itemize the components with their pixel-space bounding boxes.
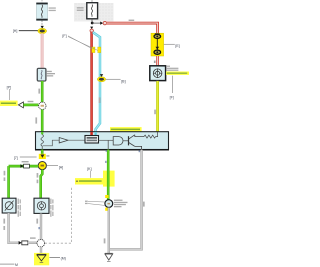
svg-text:[7]: [7] [14,156,18,160]
IC block inside ECU [85,136,99,144]
fuse F2 value text [47,71,55,77]
wire cyan stub inside ECU [94,132,96,136]
leader line from [P] [9,89,11,100]
wire green EA1 to pump2 [41,170,43,199]
pin number 7 [154,61,156,63]
wire red vertical to ECU [90,32,93,136]
off-page arrow [18,102,23,108]
sender name vertical text [18,199,21,217]
wire tag yellow on cyan [98,47,101,53]
resistor R1 [144,135,156,138]
collector wire to resistor [135,135,144,137]
connector C3 text [114,200,128,208]
connector arrow pin [41,26,44,29]
ground G1 (highlighted) [34,253,49,265]
wire label on red wire [129,20,135,21]
pin marks on FC wire [106,150,108,152]
wire code text on cyan [99,97,101,103]
wire from [H] to connector [19,30,38,32]
wire red stub inside ECU [90,132,93,136]
fuse F1 (AM2) [36,3,47,21]
fuel sender S1 [2,198,16,213]
wire IC to gate [99,139,114,141]
wire green FC down from ECU [103,171,115,187]
connector C3 (round) [105,200,113,208]
leader line to (M) [49,256,60,258]
text above connector [22,161,29,162]
wire lead below fuse F3 [91,19,93,22]
connector (yellow oval) on cyan wire [97,77,105,82]
wire green branch to node C1 [23,104,38,107]
node C4 (splice circle) [37,239,45,247]
junction dot [91,22,94,25]
wire gray ECU ground pin down and left [110,150,142,250]
wire code text [36,219,38,224]
node C1 (splice circle) [39,102,46,109]
wire gray C3 to ground corner [108,208,110,254]
svg-text:[E]: [E] [175,44,179,48]
transistor Q1 [129,135,135,147]
pointer label left of C3 [85,201,105,206]
wire gray sender down and right [9,213,19,243]
pump name highlight row [166,72,189,75]
emitter wire to ground pin [135,146,142,149]
relay coil inside ECU [41,135,44,150]
wire green fuse F2 to node [41,81,44,102]
relay block (dotted shading) [74,3,114,22]
wire code text on EA1 drop [37,173,39,178]
amplifier triangle [59,138,68,143]
connector arrow above cyan oval [100,74,103,77]
wire red horizontal to corner [106,23,157,33]
ground G2 [105,253,113,261]
svg-text:[F]: [F] [170,96,174,100]
wire code text [3,219,5,230]
pin mark above node C4 [38,227,40,229]
page continuation marker M [0,263,14,265]
wire green node C1 to ECU [41,110,44,132]
wire code text [154,110,156,115]
wire cyan (IGSW) [93,32,100,135]
svg-text:[K]: [K] [87,167,91,171]
pump pin mark [156,81,159,83]
wire label A21 [28,101,34,102]
wire tag above connector C3 [105,195,108,198]
svg-text:(M): (M) [61,257,66,261]
leader lines from [F] to wire tags [68,36,92,49]
relay contact wiring [43,140,59,146]
wire tag below connector C3 [105,208,108,211]
fuse F1 value text [49,7,56,11]
wire lead above fuse F3 [91,0,93,3]
pin mark at ground pin [139,150,141,152]
ECU label highlight above box [110,127,142,132]
leader line from [K] [90,171,92,178]
wire to right connector [92,22,100,24]
ECU box (engine control module) [36,132,169,150]
fuse F3 (EFI) [87,3,98,19]
wire code text [143,202,145,207]
wire code text on left green drop [4,171,6,176]
wire resistor to battery pin [156,132,158,137]
wire yellow-green pump to ECU [156,81,159,132]
wire code text [104,238,106,243]
wire green horizontal to left [9,165,39,168]
connector pin arrow below junction [90,27,93,30]
dashed ground-reference line [45,186,72,243]
pump name text [167,66,179,71]
logic gate [113,137,123,145]
wire pink (AM2 feed) [41,33,44,68]
wire green ECU to connector below [41,150,44,155]
connector (yellow, arrow) below ECU [39,154,46,159]
wire lead fuse F1 to connector [41,21,43,27]
wire tag yellow on red [92,47,95,53]
text above connector [30,237,36,238]
svg-text:[A]: [A] [59,166,63,170]
connector EA1 (yellow circle) [38,162,46,170]
pin text [46,155,49,156]
svg-text:[H]: [H] [13,29,18,33]
svg-text:M: M [15,263,18,267]
wire green stub inside ECU [41,132,43,135]
fuse F3 value text [77,7,84,11]
wire gray connector to node C4 [28,242,37,244]
ground reference highlight bar [75,178,105,184]
connector ring [90,29,93,32]
wire green down-left to sender [7,166,10,199]
wire gray node C4 to ground [40,247,42,253]
wire amp to IC [68,139,85,141]
leader line down to [F] [172,76,174,93]
wire dashed lead above fuse F1 [41,0,43,3]
leader line to [A] [47,165,58,167]
wire code text [38,89,40,94]
connector pair on gray wire [19,241,28,245]
net label (highlighted) [0,101,18,106]
wire green ECU pin down to connector C3 [107,150,110,200]
wire code text [35,117,37,123]
connector (yellow oval) [38,28,47,33]
fuse F2 (fusible link) [37,68,46,81]
connector C2 (yellow block) [151,33,164,56]
svg-text:[B]: [B] [121,80,125,84]
svg-text:[P]: [P] [7,85,11,89]
fuel pump P1 [150,66,166,81]
svg-text:[F]: [F] [62,34,66,38]
connector pair on green wire [20,164,29,168]
fuel pump 2 P2 [34,198,49,213]
wire gate to transistor [123,140,128,142]
wire red connector C2 to pump [156,56,159,66]
leader line [20,156,37,158]
leader line to [B] [106,78,121,80]
leader line to [E] [164,43,175,45]
wire gate line down to FC pin [107,140,109,149]
pump2 name vertical text [50,199,53,217]
connector pin pair (arrow + ring) [100,21,106,24]
wire gray pump2 down to node C4 [40,214,42,240]
